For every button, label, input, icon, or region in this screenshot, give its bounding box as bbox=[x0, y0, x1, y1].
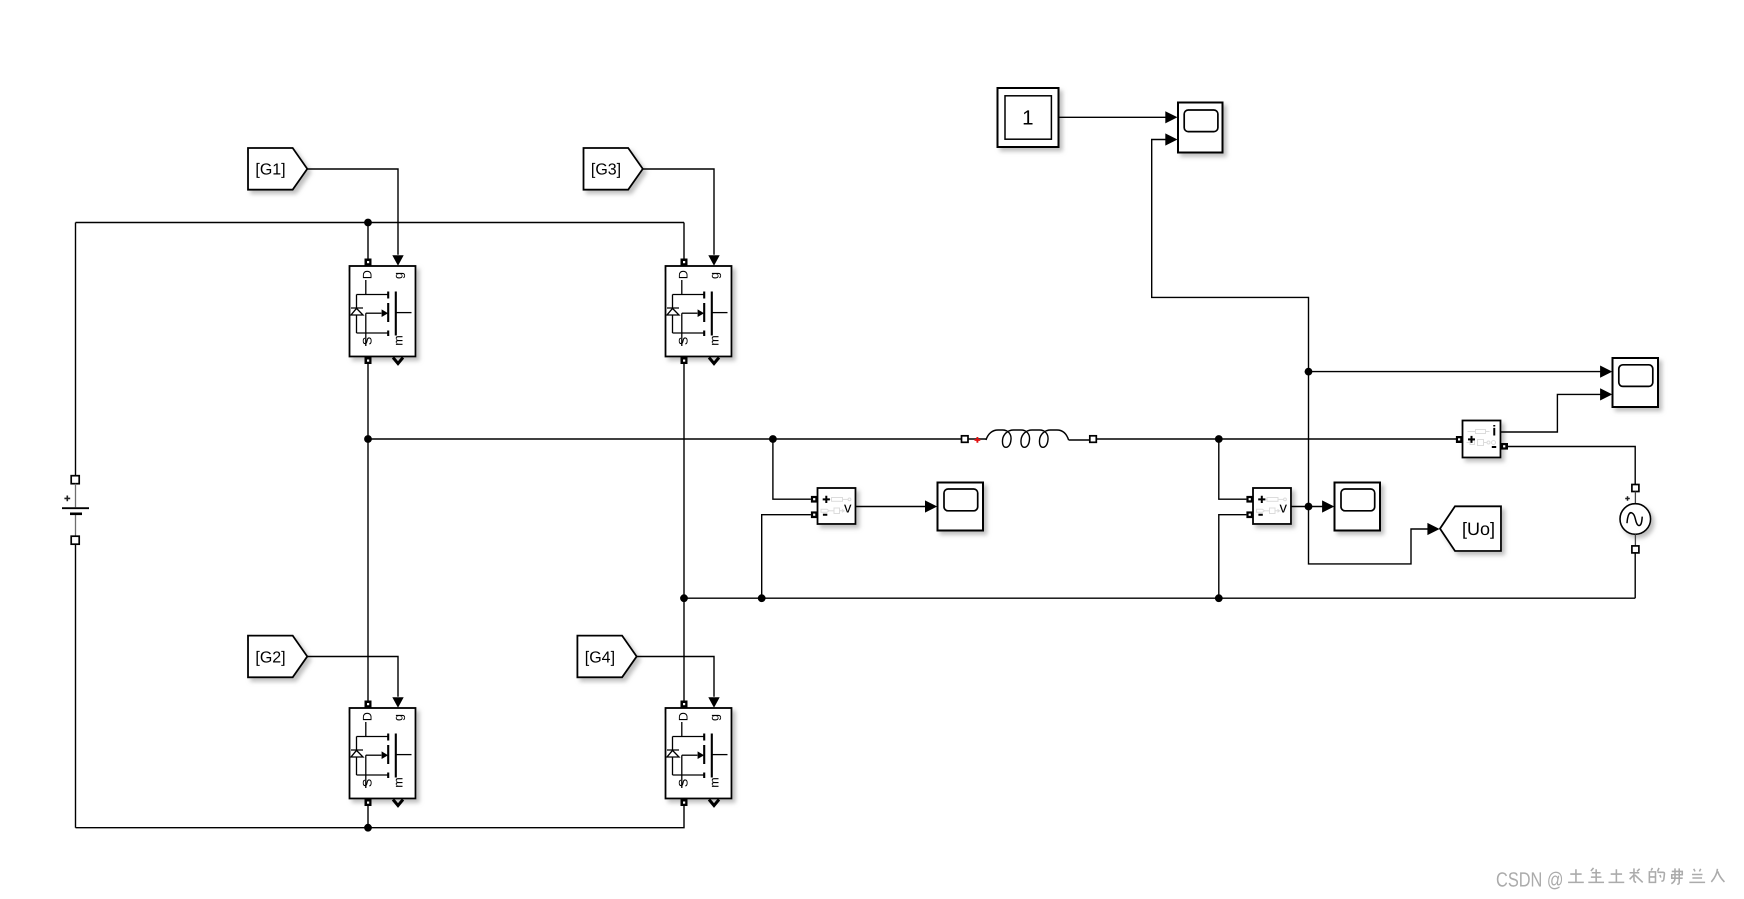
wire G3 to M3 gate bbox=[643, 169, 714, 255]
wire right leg M3 source to M4 drain bbox=[683, 364, 685, 701]
wire v1 minus input bbox=[762, 515, 811, 599]
constant block 1 bbox=[998, 88, 1059, 147]
scope Scope3 (right) bbox=[1613, 358, 1659, 407]
transistor M3 (MOSFET upper-right) bbox=[666, 255, 732, 364]
goto tag Uo bbox=[1440, 506, 1501, 551]
人 bbox=[1711, 869, 1724, 882]
wire branch to scope3 input1 bbox=[1309, 366, 1613, 378]
transistor M4 (MOSFET lower-right) bbox=[666, 697, 732, 806]
node branch to scope3 input1 bbox=[1305, 368, 1313, 376]
wire M1 drain drop bbox=[367, 223, 369, 259]
svg-text:CSDN @: CSDN @ bbox=[1496, 868, 1564, 891]
兰 bbox=[1689, 869, 1705, 883]
inductor L bbox=[962, 430, 1097, 447]
长 bbox=[1630, 868, 1643, 882]
arrowhead into Uo bbox=[1427, 523, 1439, 535]
from tag G4 bbox=[577, 636, 636, 678]
wire M3 drain drop bbox=[683, 223, 685, 259]
node v2 minus on return bus bbox=[1215, 594, 1223, 602]
node v2 plus tap bbox=[1215, 435, 1223, 443]
node v1 minus on return bus bbox=[758, 594, 766, 602]
wire left leg M1 source to M2 drain bbox=[367, 364, 369, 701]
wire v2 plus input bbox=[1219, 439, 1247, 499]
wire v-signal up to scope2 input2 bbox=[1152, 133, 1429, 564]
from tag G2 bbox=[248, 636, 307, 678]
node left leg midpoint bbox=[364, 435, 372, 443]
的 bbox=[1649, 868, 1664, 882]
from tag G3 bbox=[584, 148, 643, 190]
svg-text:[G3]: [G3] bbox=[591, 162, 621, 179]
wire G1 to M1 gate bbox=[307, 169, 398, 255]
voltage measurement V1 bbox=[811, 488, 856, 524]
wire mid bus to inductor bbox=[368, 438, 962, 440]
voltage measurement V2 bbox=[1246, 488, 1291, 524]
wire M2 source drop bbox=[367, 806, 369, 828]
node right leg load return bbox=[680, 594, 688, 602]
from tag G1 bbox=[248, 148, 307, 190]
node bottom bus M2 source bbox=[364, 824, 372, 832]
transistor M2 (MOSFET lower-left) bbox=[350, 697, 416, 806]
wire constant to scope2 input1 bbox=[1059, 111, 1178, 123]
wire inductor to current measurement bbox=[1096, 438, 1456, 440]
wire v1 output to scope1 bbox=[856, 500, 938, 512]
wire G4 to M4 gate bbox=[637, 657, 714, 697]
生 bbox=[1588, 868, 1604, 882]
node v1 plus tap bbox=[769, 435, 777, 443]
wire G2 to M2 gate bbox=[307, 657, 398, 697]
wire top bus bbox=[76, 222, 685, 224]
wire AC source return bbox=[1634, 553, 1636, 598]
wire v2 minus input bbox=[1219, 515, 1247, 599]
svg-text:[G1]: [G1] bbox=[255, 162, 285, 179]
transistor M1 (MOSFET upper-left) bbox=[350, 255, 416, 364]
svg-text:[G4]: [G4] bbox=[585, 649, 615, 666]
wire battery minus down bbox=[75, 544, 77, 828]
scope Scope1 (v1) bbox=[938, 483, 984, 531]
wire v1 plus input bbox=[773, 439, 811, 499]
svg-text:1: 1 bbox=[1022, 107, 1033, 130]
svg-text:[G2]: [G2] bbox=[255, 649, 285, 666]
wire battery plus up to top bus bbox=[75, 223, 77, 476]
弗 bbox=[1671, 868, 1682, 884]
wire i minus to AC source bbox=[1508, 447, 1635, 485]
土 bbox=[1568, 869, 1584, 882]
watermark CSDN bbox=[1496, 868, 1724, 891]
DC voltage source E bbox=[62, 476, 89, 545]
AC source Uac bbox=[1620, 485, 1651, 553]
wire load return bus bbox=[684, 597, 1635, 599]
current measurement I bbox=[1456, 421, 1508, 458]
node v2 output junction bbox=[1305, 503, 1313, 511]
土 bbox=[1609, 869, 1625, 882]
svg-text:i: i bbox=[1492, 424, 1496, 440]
scope Scope2 (top) bbox=[1178, 103, 1223, 153]
wire bottom bus bbox=[76, 806, 685, 828]
scope Scope4 (v2) bbox=[1335, 483, 1381, 531]
wire v2 output to scope4 bbox=[1291, 500, 1334, 512]
wire i signal out to scope3 input2 bbox=[1501, 388, 1613, 432]
node top bus / M1 drain bbox=[364, 219, 372, 227]
svg-text:[Uo]: [Uo] bbox=[1462, 519, 1495, 539]
